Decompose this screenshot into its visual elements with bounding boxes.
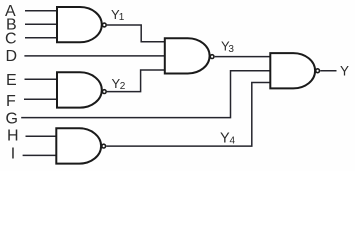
svg-text:I: I — [11, 146, 15, 163]
svg-text:Y: Y — [340, 64, 349, 79]
svg-text:Y: Y — [220, 131, 230, 147]
svg-text:4: 4 — [230, 136, 236, 147]
svg-text:G: G — [6, 111, 18, 128]
svg-text:3: 3 — [228, 44, 234, 55]
svg-text:D: D — [6, 48, 18, 65]
svg-text:H: H — [7, 128, 19, 145]
svg-text:F: F — [6, 93, 16, 110]
svg-text:E: E — [6, 72, 17, 89]
svg-text:2: 2 — [120, 81, 126, 92]
svg-text:1: 1 — [119, 12, 125, 23]
svg-text:C: C — [5, 31, 17, 48]
